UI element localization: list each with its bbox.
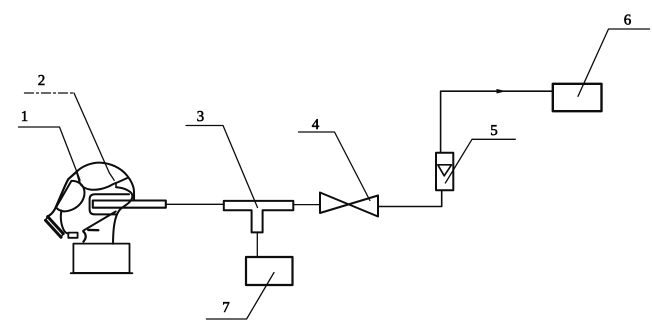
wire flowmeter to box 6: [441, 91, 553, 153]
leader line for label 3: [186, 126, 258, 208]
label 2: [38, 75, 44, 85]
leader line for label 7: [206, 273, 274, 320]
mask head dome outline: [76, 163, 134, 200]
mouth stroke: [88, 229, 98, 232]
label 4: [312, 119, 319, 129]
tube port collar: [90, 194, 129, 214]
cheek strap: [83, 212, 116, 231]
mask cheek edge to chin: [61, 211, 68, 234]
wire tee to box 7: [256, 233, 258, 258]
face profile: [48, 179, 69, 217]
flowmeter float triangle: [438, 165, 452, 176]
leader line for label 5: [445, 139, 515, 183]
sampling tube: [93, 201, 166, 208]
chin strap curl: [83, 232, 85, 242]
chin tab: [68, 233, 77, 238]
label 1: [22, 111, 27, 121]
head harness crown patch lower seam: [77, 172, 127, 189]
valve 4: [320, 193, 378, 217]
eyepiece: [56, 181, 84, 211]
box 6: [553, 84, 602, 111]
box 7: [246, 257, 293, 285]
label 6: [624, 15, 630, 25]
stand base: [73, 244, 129, 273]
filter canister stripes: [46, 217, 64, 238]
tee fitting 3 (T-shaped outline): [224, 201, 293, 233]
flowmeter 5 body: [436, 153, 453, 191]
mask upper seam: [68, 172, 76, 179]
stand base bottom line: [71, 272, 133, 274]
leader line for label 2 (dash-dot): [25, 92, 75, 94]
leader line for label 6: [578, 29, 650, 96]
flow arrow: [497, 89, 507, 94]
harness patch tick: [115, 183, 117, 187]
label 7: [223, 302, 229, 312]
leader line for label 1: [19, 127, 81, 180]
leader line for label 4: [299, 132, 370, 201]
label 3: [197, 111, 203, 121]
wire tee to valve: [294, 204, 321, 206]
wire tube to tee: [166, 203, 224, 205]
label 5: [491, 125, 497, 135]
filter canister end caps: [46, 217, 64, 238]
harness band and back-of-head neck curve: [113, 187, 132, 244]
wire valve to flowmeter: [378, 190, 442, 206]
